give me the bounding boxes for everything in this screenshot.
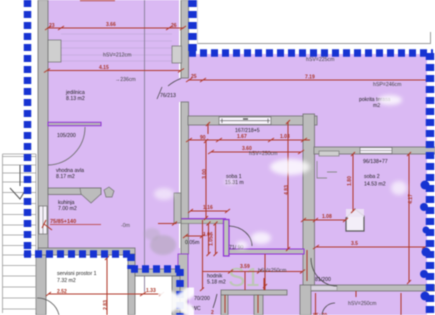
door arc 81/200 — [311, 258, 337, 286]
dim line servisni 2.52/1.33 — [48, 293, 162, 295]
red verticals bottom right — [400, 293, 402, 315]
room fill avla extension — [135, 248, 180, 270]
step down — [127, 254, 135, 269]
red verticals hodnik/wc — [244, 272, 246, 290]
red dim texts — [49, 22, 414, 315]
right column — [426, 53, 435, 315]
room fill left column (loggia, jedilnica, vhodna avla, kuhinja) — [47, 0, 179, 250]
door slash 76/213 label line — [157, 87, 162, 99]
wall V2 (soba1 / soba2) — [303, 114, 315, 290]
svg-text:2.83: 2.83 — [103, 300, 109, 310]
wall H6 soba2 bottom — [311, 285, 435, 291]
door bar 105/200 violet — [48, 122, 101, 125]
svg-text:hSV=250cm: hSV=250cm — [249, 151, 277, 157]
red label 75/85+140 — [50, 219, 76, 225]
svg-text:1.33: 1.33 — [146, 288, 156, 294]
svg-text:26: 26 — [171, 23, 177, 29]
window 96/138 in H2 — [360, 148, 392, 154]
door arc bottom right cut — [322, 303, 335, 315]
dim vertical left — [202, 220, 204, 289]
svg-text:8.13 m2: 8.13 m2 — [66, 96, 85, 102]
dim line 4.15 — [47, 70, 181, 72]
svg-text:167/218+5: 167/218+5 — [235, 128, 260, 134]
svg-text:1.80: 1.80 — [347, 176, 353, 186]
jamb nub soba2 — [319, 151, 339, 156]
deck lines loggia — [61, 34, 172, 61]
wall H2 (terasa / soba2) — [314, 147, 435, 154]
svg-text:3.00: 3.00 — [202, 169, 208, 179]
middle row — [131, 265, 180, 273]
dim vertical 1.06 — [215, 224, 217, 255]
stairs door arc — [37, 298, 59, 315]
svg-text:81/200: 81/200 — [315, 277, 331, 283]
wall stub wc2 — [254, 295, 263, 315]
white X blob bottom left — [161, 290, 191, 313]
svg-text:1.08: 1.08 — [322, 214, 332, 220]
svg-text:1.03: 1.03 — [280, 134, 290, 140]
dim vertical servisni 2.83 — [106, 258, 108, 315]
wall left outer — [38, 0, 48, 255]
svg-text:m2: m2 — [373, 103, 380, 109]
wall V4 violet — [224, 220, 230, 257]
top column — [188, 0, 197, 53]
svg-text:4.15: 4.15 — [99, 65, 109, 71]
gray smudge near corner — [144, 228, 176, 255]
wall H4 violet (hodnik top) — [229, 249, 304, 254]
door arc 71/190 — [229, 226, 252, 246]
svg-text:70/200: 70/200 — [194, 296, 210, 302]
red line avla to wall — [158, 223, 177, 225]
svg-text:0.05m: 0.05m — [185, 240, 199, 246]
svg-text:3.66: 3.66 — [106, 22, 116, 28]
furniture mark soba2 — [327, 171, 337, 173]
wall V5 (hodnik left) — [178, 254, 188, 315]
dim line hodnik 3.59 — [203, 271, 303, 273]
wall white room right — [172, 276, 180, 315]
eraser blobs — [154, 95, 407, 249]
svg-text:1.67: 1.67 — [237, 134, 247, 140]
wall H5 (hodnik bottom) — [221, 290, 287, 295]
dim line 0.05 — [185, 235, 203, 237]
svg-text:90: 90 — [200, 135, 206, 141]
wall servisni right — [128, 254, 135, 315]
svg-text:soba 2: soba 2 — [364, 174, 380, 180]
blue blobs right edge — [420, 181, 431, 301]
dim vertical soba2 1.80 — [352, 154, 354, 211]
wall left outer lower — [36, 255, 46, 315]
red tick window left — [207, 124, 209, 134]
left column — [24, 0, 32, 256]
dim vertical 1.05 — [208, 224, 210, 255]
svg-text:25: 25 — [191, 74, 197, 80]
svg-text:hSV=250cm: hSV=250cm — [348, 301, 376, 307]
svg-text:hSV=225cm: hSV=225cm — [306, 57, 334, 63]
red line fragment top edge — [80, 0, 115, 2]
window 167/218 in H1 — [219, 117, 271, 125]
svg-text:hSV=212cm: hSV=212cm — [103, 53, 131, 59]
wall V2 lower — [300, 285, 311, 315]
svg-text:76/213: 76/213 — [160, 93, 176, 99]
wall step horizontal — [135, 269, 180, 276]
dim vertical soba1 3.00 — [205, 141, 207, 218]
dim line loggia top — [47, 27, 184, 29]
jamb block loggia left — [48, 40, 61, 62]
red tick kuhinja window — [42, 220, 52, 230]
svg-text:14.53 m2: 14.53 m2 — [364, 182, 386, 188]
svg-text:105/200: 105/200 — [57, 133, 76, 139]
svg-text:7.19: 7.19 — [305, 75, 315, 81]
svg-text:2.52: 2.52 — [57, 289, 67, 295]
dim line soba1 3.60 — [211, 151, 301, 153]
svg-text:5.18 m2: 5.18 m2 — [207, 280, 226, 286]
door arc 105/200 — [48, 127, 85, 165]
bottom-left column down — [176, 269, 184, 315]
svg-text:1.16: 1.16 — [203, 205, 213, 211]
svg-text:7.00 m2: 7.00 m2 — [58, 206, 77, 212]
dim vertical soba1 4.83 — [287, 122, 289, 249]
dim line soba2 3.5 — [316, 246, 425, 248]
wall H3 (niche top) — [181, 219, 226, 224]
door arc 70/200 — [213, 294, 217, 308]
room fill right block (terasa, soba 1, soba 2, hodnik, wc) — [188, 54, 427, 315]
svg-text:8.17 m2: 8.17 m2 — [56, 174, 75, 180]
door threshold 81/200 — [311, 286, 337, 291]
window 75/85 left wall — [39, 206, 47, 234]
svg-text:4.17: 4.17 — [408, 194, 414, 204]
wall stub wc1 — [221, 295, 228, 315]
svg-text:96/138+77: 96/138+77 — [363, 159, 388, 165]
svg-text:3.5: 3.5 — [351, 241, 358, 247]
dim vertical soba2 4.17 — [408, 154, 410, 282]
dim line soba2 1.08 — [303, 219, 346, 221]
svg-text:→236cm: →236cm — [115, 77, 136, 83]
jamb block loggia right — [172, 46, 182, 63]
room fill door gap 76/213 — [178, 78, 189, 102]
door arc 76/213 — [168, 79, 181, 87]
wall V1 lower — [181, 102, 189, 254]
svg-text:1.05: 1.05 — [209, 236, 215, 246]
svg-text:23: 23 — [49, 23, 55, 29]
dim line soba1 window — [188, 139, 310, 141]
svg-text:3.59: 3.59 — [240, 264, 250, 270]
wall kuhinja divider — [48, 188, 101, 195]
wall V1 upper (right of loggia) — [181, 0, 189, 78]
black room labels — [56, 53, 401, 313]
room fill soba1 upper strip — [188, 108, 304, 117]
svg-text:2: 2 — [211, 310, 214, 315]
svg-text:75/85+140: 75/85+140 — [50, 219, 76, 225]
svg-text:hSV=250cm: hSV=250cm — [258, 268, 286, 274]
kuhinja divider nub — [104, 187, 114, 197]
bottom-left row — [24, 250, 134, 258]
svg-text:-0m: -0m — [121, 223, 130, 229]
svg-text:hSP=246cm: hSP=246cm — [373, 82, 401, 88]
wardrobe soba2 corner — [317, 161, 327, 178]
red tick wc wall — [200, 288, 204, 292]
stairs direction arrow — [10, 165, 26, 199]
wall avla bottom step — [38, 248, 135, 255]
white square soba2 (shaft) — [346, 209, 364, 231]
svg-text:servisni prostor 1: servisni prostor 1 — [57, 271, 97, 277]
top row terasa — [189, 49, 433, 57]
dim line 1.16 — [190, 210, 228, 212]
stairs — [3, 154, 37, 313]
building outline top right — [197, 43, 431, 45]
wall H1 (terasa / soba1) — [188, 116, 317, 125]
svg-text:4.83: 4.83 — [284, 185, 290, 195]
dim line terasa 7.19 — [188, 79, 429, 81]
red vertical V2 inner — [306, 250, 308, 281]
svg-text:7.32 m2: 7.32 m2 — [57, 278, 76, 284]
kuhinja divider wedge — [80, 188, 101, 203]
wall pilaster left of V1 — [174, 193, 181, 223]
section line vertical — [144, 0, 146, 292]
